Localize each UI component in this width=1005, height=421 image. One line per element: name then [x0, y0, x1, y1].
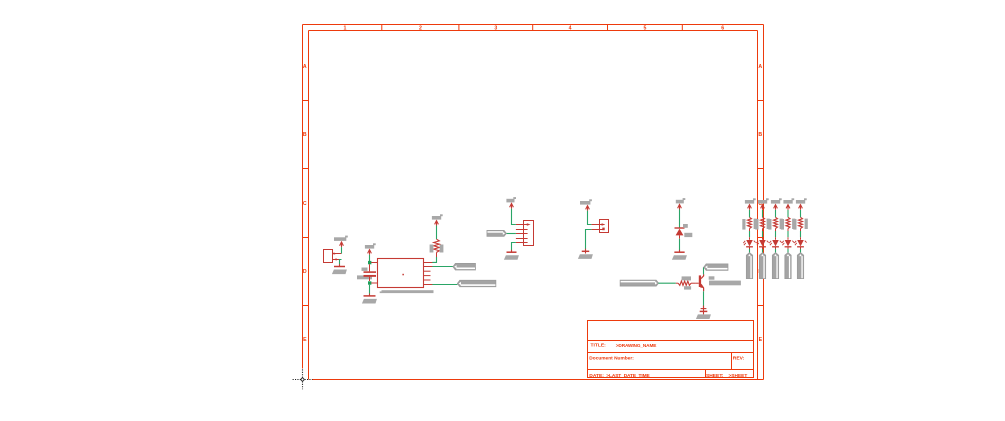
wire R4 to LED2	[762, 229, 764, 232]
ground GND below D1	[679, 250, 681, 253]
wire Q1 emitter to ground	[703, 291, 705, 310]
R6 value label	[792, 219, 795, 229]
svg-text:1: 1	[344, 25, 347, 31]
svg-text:SHEET:: SHEET:	[706, 373, 724, 379]
R2 name label	[682, 276, 691, 280]
wire VCC to node	[369, 255, 371, 261]
schematic frame inner border	[309, 30, 758, 32]
R7 name label	[793, 219, 796, 230]
wire R6 to LED4	[787, 229, 789, 232]
LED D6	[797, 240, 804, 246]
VCC supply symbol +5V at D1	[676, 200, 684, 204]
wire LED D5 to flag	[787, 247, 789, 249]
resistor R7 (vertical)	[799, 217, 803, 228]
R3 value label	[754, 219, 757, 229]
junction	[368, 261, 371, 264]
svg-text:4: 4	[569, 25, 572, 31]
R1 value label	[440, 245, 444, 253]
wire VCC to R1	[436, 226, 438, 240]
LED D5	[785, 240, 792, 246]
svg-text:3: 3	[494, 25, 497, 31]
wire SV1 pin3 to flag	[506, 233, 516, 235]
IC U1 value label	[382, 290, 434, 293]
resistor R2 (horizontal)	[678, 281, 691, 285]
wire VCC to R4	[762, 210, 764, 217]
wire VCC to R6	[787, 210, 789, 217]
R2 value label	[684, 286, 691, 289]
label C1 name	[362, 268, 368, 271]
transistor Q1	[699, 275, 701, 287]
wire node to IC GND pin	[371, 282, 377, 284]
wire R3 to LED1	[749, 229, 751, 232]
VCC supply symbol +5V at SV1	[506, 199, 514, 203]
net flag channel 4 output	[785, 253, 791, 279]
VCC supply symbol +5V at C1	[365, 245, 374, 249]
wire flag to R2	[659, 282, 676, 284]
wire J1 pin1 to VCC	[341, 247, 343, 253]
frame row ticks right	[758, 100, 764, 102]
VCC supply symbol +5V channel 5	[796, 200, 805, 204]
ground GND below C1	[369, 294, 371, 297]
svg-text:5: 5	[643, 25, 646, 31]
VCC supply symbol +5V channel 4	[783, 200, 792, 204]
junction	[368, 281, 371, 284]
frame row ticks left	[303, 100, 309, 102]
svg-text:6: 6	[721, 25, 724, 31]
wire node to ground	[369, 285, 371, 294]
net flag channel 2 output	[759, 253, 765, 279]
connector SV1 (5-pin)	[524, 221, 534, 246]
wire VCC to D1	[679, 209, 681, 227]
svg-text:E: E	[303, 337, 307, 343]
Q1 value label	[709, 281, 741, 286]
net flag channel 5 output	[797, 253, 803, 279]
net flag on Q1 collector	[704, 264, 728, 270]
LED D2	[746, 240, 753, 246]
net flag channel 1 output	[746, 253, 752, 279]
VCC supply symbol +5V at SV2	[580, 201, 590, 205]
wire Q1 collector to flag	[703, 267, 705, 274]
ground GND at SV1	[511, 250, 513, 253]
wire SV1 pin1 to VCC	[512, 209, 516, 225]
title block	[588, 321, 754, 378]
frame column dividers	[381, 25, 383, 31]
LED D3	[759, 240, 766, 246]
net flag on IC pin2	[453, 264, 475, 270]
wire R5 to LED3	[775, 229, 777, 232]
wire LED D4 to flag	[775, 247, 777, 249]
wire node to IC VCC pin	[371, 262, 377, 264]
wire VCC to R5	[775, 210, 777, 217]
diode D1	[675, 227, 685, 229]
resistor R6 (vertical)	[786, 217, 790, 228]
R7 value label	[805, 219, 808, 229]
wire J1 pin2 to ground	[340, 260, 342, 265]
svg-text:C: C	[303, 201, 307, 207]
wire IC pin2 to flag	[432, 266, 453, 268]
svg-text:D: D	[303, 269, 307, 275]
wire LED D6 to flag	[800, 247, 802, 249]
R3 name label	[742, 219, 745, 230]
capacitor C1	[369, 264, 371, 271]
wire IC pin6 to flag	[432, 284, 457, 286]
net flag channel 3 output	[772, 253, 778, 279]
svg-text:E: E	[759, 337, 763, 343]
wire R1 to IC pin1	[436, 252, 438, 257]
net flag on SV1 pin3	[487, 231, 506, 237]
R5 name label	[768, 219, 771, 230]
wire SV1 pin5 to ground	[512, 243, 516, 252]
IC U1 right pins	[424, 262, 433, 264]
connector J1 (2-pin)	[324, 250, 333, 263]
ground GND at SV2	[585, 249, 587, 254]
sheet origin marker (dotted crosshair)	[293, 379, 313, 381]
ground GND at J1	[339, 264, 341, 267]
svg-text:B: B	[303, 132, 307, 138]
net flag on IC pin6	[457, 280, 495, 286]
VCC supply symbol +5V channel 1	[745, 200, 754, 204]
resistor R3 (vertical)	[748, 217, 752, 228]
wire R7 to LED5	[800, 229, 802, 232]
D1 value label	[684, 233, 692, 237]
svg-text:>LAST_DATE_TIME: >LAST_DATE_TIME	[606, 373, 650, 379]
resistor R4 (vertical)	[761, 217, 765, 228]
R4 value label	[767, 219, 770, 229]
svg-text:>SHEET: >SHEET	[729, 373, 748, 379]
VCC supply symbol +5V at R1	[432, 216, 441, 220]
svg-text:>DRAWING_NAME: >DRAWING_NAME	[616, 343, 657, 348]
svg-text:2: 2	[419, 25, 422, 31]
R1 name label	[430, 245, 434, 253]
svg-text:A: A	[758, 64, 762, 70]
VCC supply symbol +5V at J1	[334, 237, 346, 241]
svg-text:DATE:: DATE:	[589, 373, 604, 379]
IC U1	[378, 259, 424, 288]
Q1 name label	[709, 276, 715, 279]
net flag input to R2	[620, 280, 658, 286]
wire SV2 pin2 to ground	[586, 230, 592, 250]
svg-text:B: B	[758, 132, 762, 138]
wire LED D3 to flag	[762, 247, 764, 249]
svg-text:TITLE:: TITLE:	[591, 343, 607, 349]
svg-text:A: A	[303, 64, 307, 70]
wire VCC to R3	[749, 210, 751, 217]
resistor R5 (vertical)	[774, 217, 778, 228]
R4 name label	[755, 219, 758, 230]
VCC supply symbol +5V channel 2	[758, 200, 767, 204]
wire D1 to ground	[679, 239, 681, 251]
R5 value label	[780, 219, 783, 229]
LED D4	[772, 240, 779, 246]
R6 name label	[781, 219, 784, 230]
schematic frame outer border	[303, 24, 764, 26]
wire SV2 pin1 to VCC	[588, 211, 592, 225]
VCC supply symbol +5V channel 3	[771, 200, 780, 204]
wire LED D2 to flag	[749, 247, 751, 249]
svg-text:Document Number:: Document Number:	[589, 355, 634, 361]
D1 name label	[683, 224, 688, 228]
connector SV2 (2-pin)	[600, 220, 609, 233]
svg-text:REV:: REV:	[733, 355, 745, 361]
resistor R1 (vertical)	[434, 239, 440, 252]
ground GND below Q1	[703, 306, 705, 315]
wire VCC to R7	[800, 210, 802, 217]
